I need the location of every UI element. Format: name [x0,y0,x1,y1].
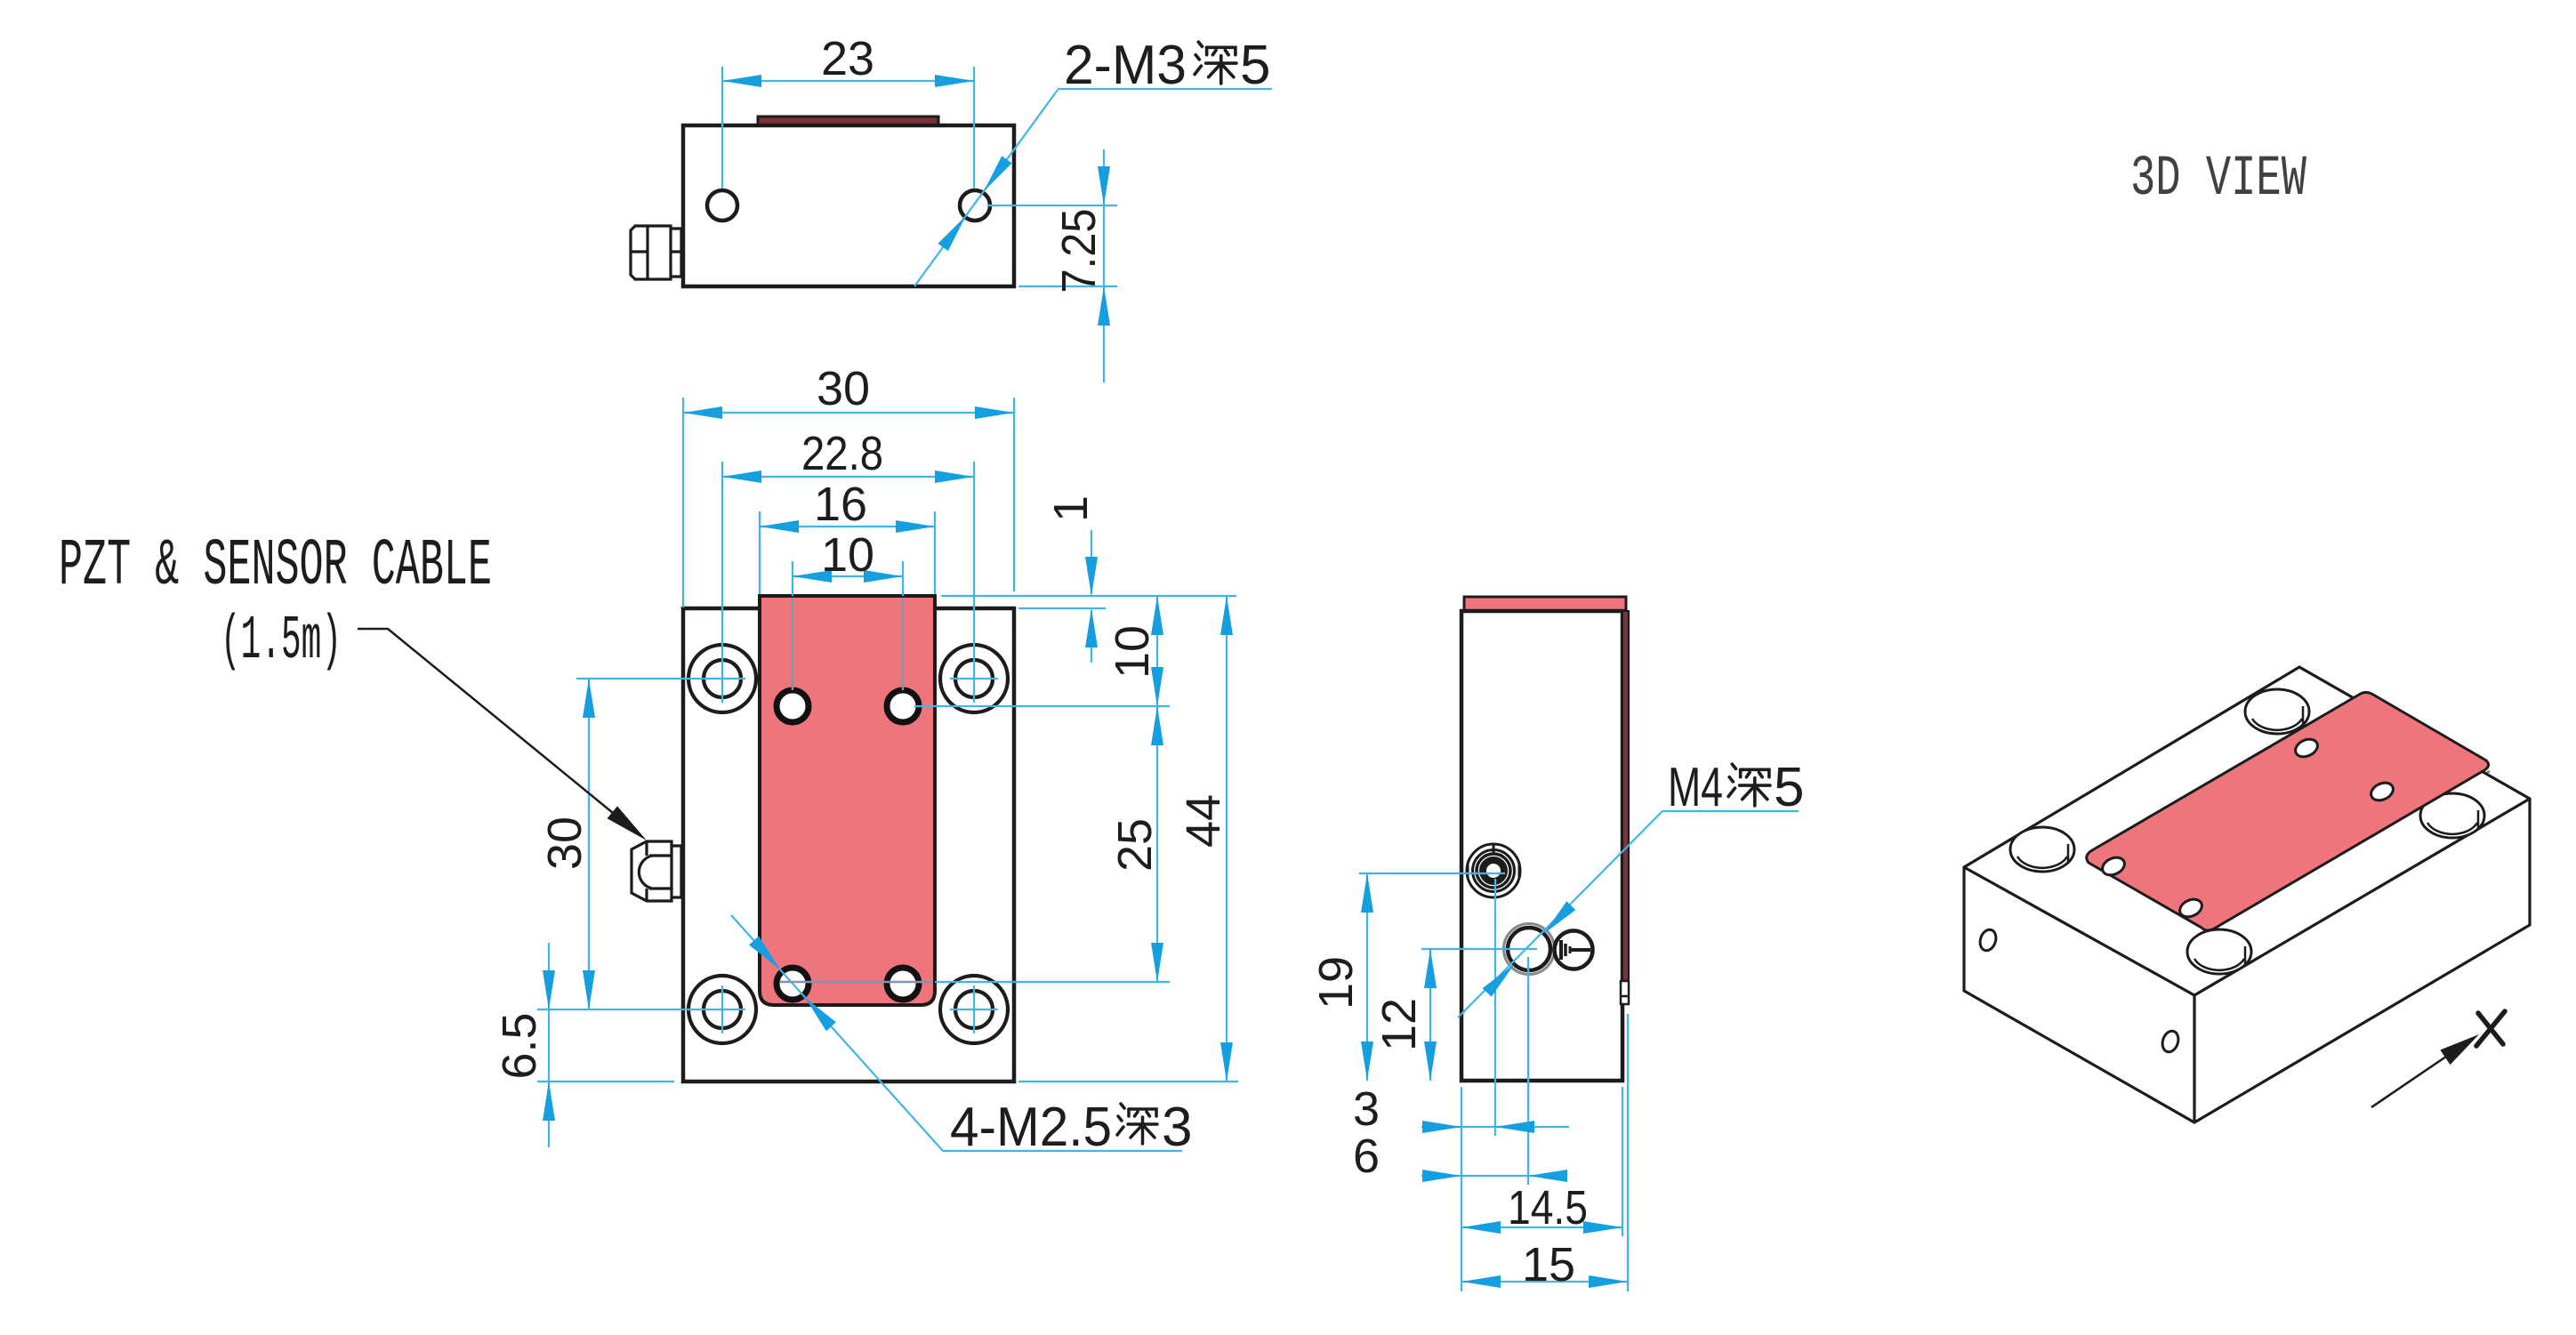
svg-text:15: 15 [1522,1238,1575,1291]
svg-text:30: 30 [817,362,870,415]
svg-text:25: 25 [1108,818,1162,872]
svg-text:6: 6 [1353,1130,1380,1183]
svg-text:7.25: 7.25 [1052,209,1106,294]
svg-text:14.5: 14.5 [1508,1181,1588,1234]
svg-text:12: 12 [1373,998,1426,1051]
svg-text:44: 44 [1177,794,1230,848]
svg-text:6.5: 6.5 [493,1012,546,1079]
svg-text:16: 16 [814,478,867,531]
svg-text:3: 3 [1162,1097,1192,1158]
svg-text:(1.5m): (1.5m) [221,607,342,677]
svg-text:23: 23 [821,32,874,85]
svg-text:22.8: 22.8 [801,427,883,480]
svg-text:19: 19 [1309,956,1363,1009]
svg-text:3: 3 [1353,1082,1380,1136]
svg-text:3D VIEW: 3D VIEW [2130,148,2306,212]
svg-text:5: 5 [1774,757,1804,818]
svg-text:PZT & SENSOR CABLE: PZT & SENSOR CABLE [59,529,492,604]
svg-text:10: 10 [1106,625,1159,679]
svg-text:5: 5 [1240,35,1270,96]
svg-text:1: 1 [1044,495,1098,522]
svg-text:10: 10 [821,528,874,582]
svg-text:4-M2.5: 4-M2.5 [950,1097,1112,1158]
svg-text:30: 30 [538,816,592,870]
svg-text:2-M3: 2-M3 [1064,35,1187,96]
svg-text:M4: M4 [1668,757,1723,818]
